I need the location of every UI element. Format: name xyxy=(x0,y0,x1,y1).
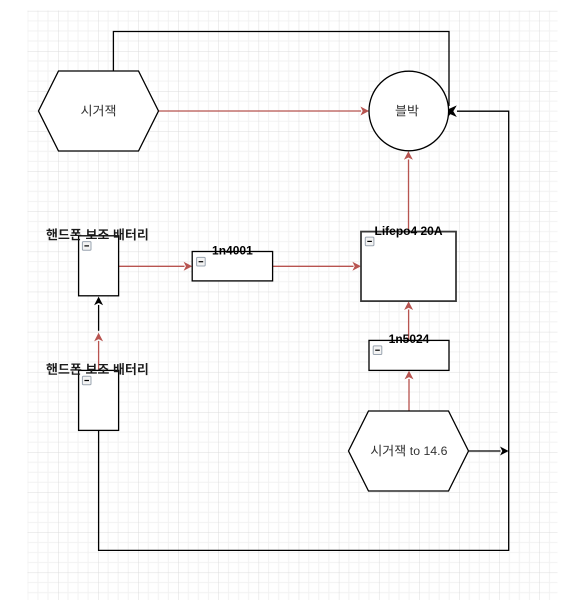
arrowhead into circle right (black, pointing left) xyxy=(444,105,457,117)
box: phone auxiliary battery 2 xyxy=(79,370,119,430)
collapse icon 1n5024 xyxy=(373,346,382,355)
label 시거잭 xyxy=(81,105,115,117)
arrowhead red into 1n5024 bottom xyxy=(405,371,414,380)
arrowhead red at midpoint xyxy=(94,333,103,342)
arrowhead red into 1n4001 xyxy=(184,262,193,271)
collapse icon Lifepo4 xyxy=(365,237,374,246)
svg-text:to 14.6: to 14.6 xyxy=(410,444,448,458)
box: Lifepo4 20A xyxy=(361,232,456,302)
wire red: hexagon1 right to circle left xyxy=(159,110,361,112)
wire red: battery1 right to 1n4001 left xyxy=(119,265,185,267)
collapse icon battery 1 xyxy=(82,242,91,251)
label 불박 xyxy=(396,105,419,117)
svg-text:1n5024: 1n5024 xyxy=(389,332,430,346)
wire red: battery2 top to midpoint xyxy=(98,341,100,370)
arrowhead red into Lifepo4 bottom xyxy=(404,301,413,310)
circle node: bulbak xyxy=(369,71,449,151)
box: diode 1n4001 xyxy=(192,252,272,281)
box: diode 1n5024 xyxy=(369,340,449,370)
arrowhead red into Lifepo4 left xyxy=(352,262,361,271)
svg-text:1n4001: 1n4001 xyxy=(212,243,253,257)
wire red: Lifepo4 top to circle bottom xyxy=(408,160,410,232)
collapse icon battery 2 xyxy=(82,376,91,385)
label 핸드폰 보조 배터리 (battery 2) xyxy=(46,363,147,375)
arrowhead at right bus xyxy=(500,447,509,456)
hexagon: sigeojaek (cigarette jack) xyxy=(39,71,159,151)
arrowhead red into circle left xyxy=(360,107,369,116)
label 핸드폰 보조 배터리 (battery 1) xyxy=(46,228,147,240)
hexagon: sigeojaek to 14.6 xyxy=(349,411,469,491)
wire: hexagon2 right to right bus xyxy=(469,450,501,452)
wire red: hexagon2 top to 1n5024 bottom xyxy=(408,379,410,411)
arrowhead at end of top wire into circle (black, pointing down-left) xyxy=(439,107,454,123)
wire black: midpoint to battery1 bottom xyxy=(98,305,100,331)
label 시거잭 to 14.6 xyxy=(371,445,405,457)
wire red: 1n4001 right to Lifepo4 left xyxy=(273,265,354,267)
wire: battery2 bottom loop to bulbak circle right xyxy=(99,111,509,550)
svg-text:Lifepo4 20A: Lifepo4 20A xyxy=(374,224,442,238)
collapse icon 1n4001 xyxy=(197,257,206,266)
arrowhead black into battery1 bottom xyxy=(94,297,103,306)
arrowhead red into circle bottom xyxy=(404,151,413,160)
wire red: 1n5024 top to Lifepo4 bottom xyxy=(408,310,410,341)
wire: hexagon1 top to bulbak circle (up, right, down) xyxy=(113,32,449,107)
box: phone auxiliary battery 1 xyxy=(79,236,119,296)
